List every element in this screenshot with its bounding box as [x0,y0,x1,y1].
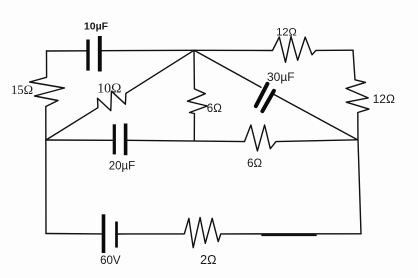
svg-text:2Ω: 2Ω [200,253,216,267]
svg-text:6Ω: 6Ω [207,103,222,115]
svg-text:30µF: 30µF [267,70,295,84]
svg-text:6Ω: 6Ω [247,158,262,170]
svg-text:15Ω: 15Ω [11,83,33,97]
svg-text:10Ω: 10Ω [97,80,121,95]
svg-text:60V: 60V [100,255,121,267]
svg-text:20µF: 20µF [109,160,135,172]
svg-text:10µF: 10µF [84,21,109,33]
svg-text:12Ω: 12Ω [373,92,395,106]
svg-text:12Ω: 12Ω [276,26,296,38]
